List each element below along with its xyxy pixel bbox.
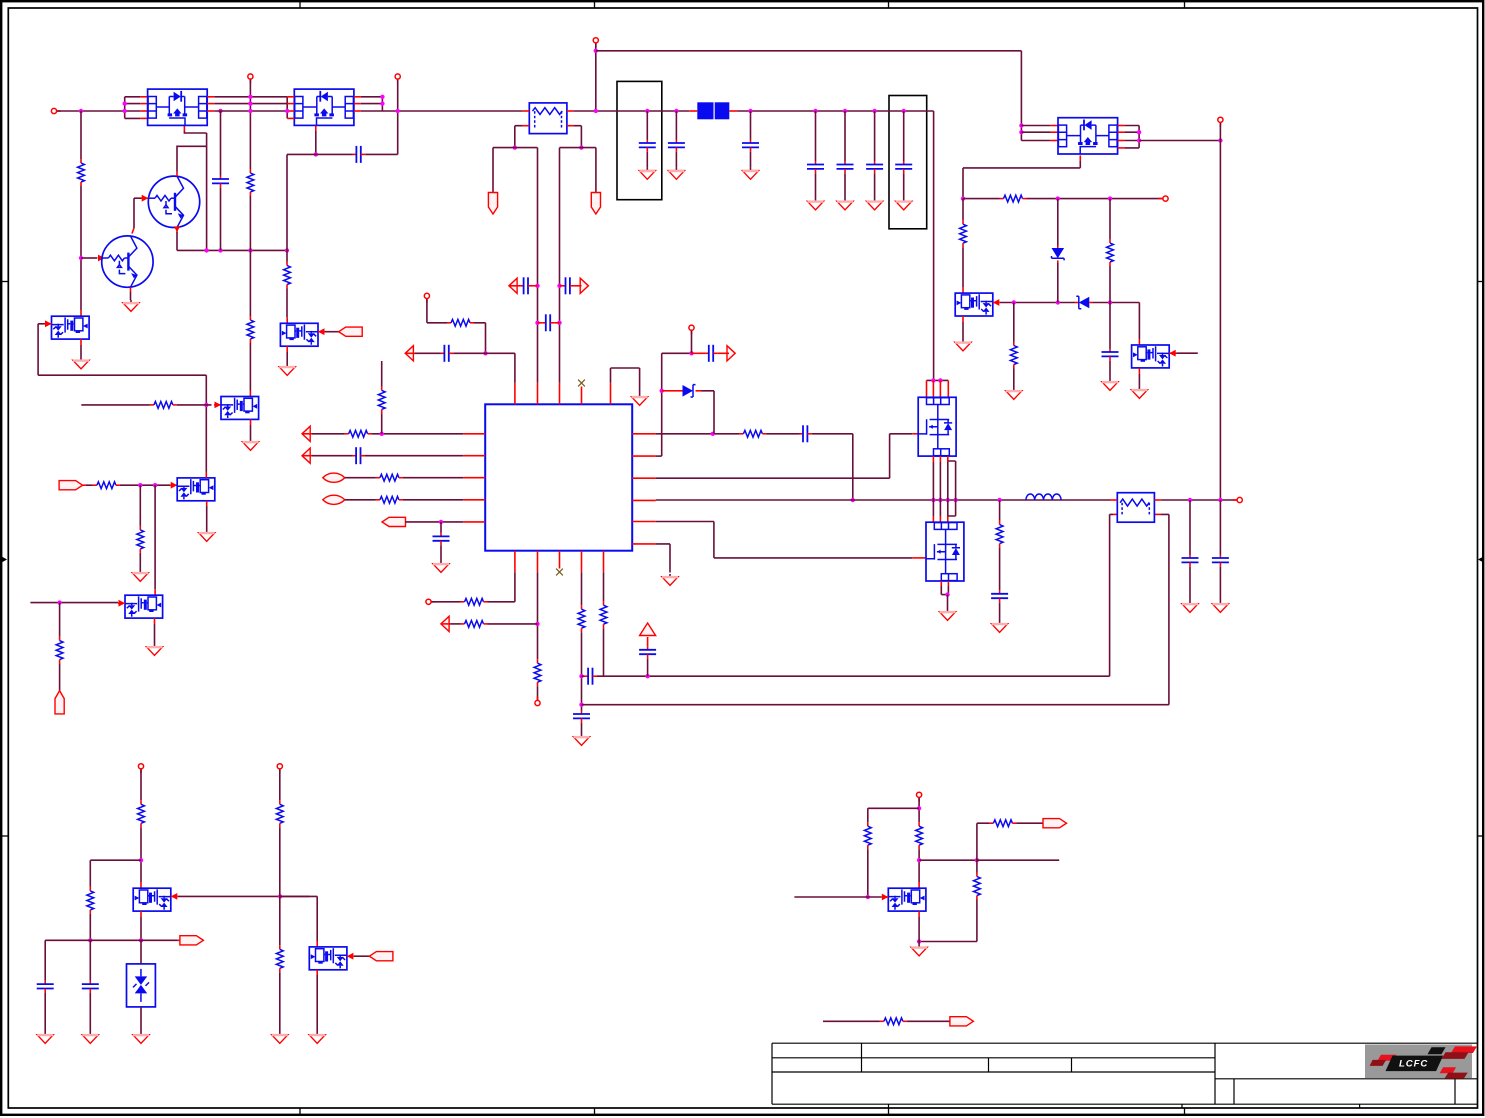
junction <box>278 894 282 898</box>
wire <box>176 232 178 250</box>
pin D1 anode <box>662 390 683 392</box>
wire <box>581 572 583 605</box>
capacitor C20 <box>585 668 597 685</box>
ground G32 <box>279 364 295 375</box>
wire <box>823 1020 880 1022</box>
pin Q1 right <box>207 110 214 112</box>
pin M1 source <box>939 456 941 462</box>
resistor R30 <box>989 820 1016 827</box>
junction <box>79 109 83 113</box>
pin U1 left <box>463 477 485 479</box>
junction <box>931 498 935 502</box>
wire <box>1176 352 1198 354</box>
pin <box>726 352 729 354</box>
junction <box>674 109 678 113</box>
resistor R19 <box>996 521 1003 548</box>
wire rail <box>214 110 287 112</box>
wire <box>372 433 464 435</box>
border tick right <box>1478 835 1484 837</box>
wire Q2 right bus <box>381 97 383 111</box>
ground G5 <box>807 199 823 210</box>
border arrow left <box>1 557 6 561</box>
wire <box>453 353 515 382</box>
resistor R5 <box>960 220 967 247</box>
ground G28 <box>199 530 215 541</box>
junction <box>123 101 127 105</box>
wire stub <box>977 859 1059 861</box>
pin Q3 right <box>1118 140 1125 142</box>
wire <box>977 823 990 860</box>
power terminal P15 <box>917 792 922 797</box>
wire <box>919 859 977 861</box>
wire top net <box>596 50 1022 52</box>
border tick right <box>1478 281 1484 283</box>
wire <box>907 1020 950 1022</box>
pin U1 left <box>463 521 485 523</box>
diode D1 <box>683 385 696 397</box>
resistor R31 <box>974 873 981 900</box>
transistor Q4 <box>148 176 199 227</box>
pin <box>718 352 726 354</box>
wire <box>279 827 281 896</box>
capacitor C19 <box>573 711 590 723</box>
wire <box>220 188 222 251</box>
junction <box>557 321 561 325</box>
pin Q2 left <box>287 103 294 105</box>
resistor R29 <box>916 822 923 849</box>
wire <box>432 601 461 603</box>
wire <box>656 544 670 573</box>
pin Q3 right <box>1118 147 1125 149</box>
junction <box>645 109 649 113</box>
pin Q1 left <box>140 117 147 119</box>
wire <box>962 199 964 221</box>
junction <box>945 592 949 596</box>
resistor R16 <box>461 621 488 628</box>
power terminal P8 <box>689 325 694 330</box>
wire <box>939 462 941 516</box>
junction <box>396 109 400 113</box>
dual FET B7 <box>309 947 347 970</box>
ground G23 <box>82 1032 98 1043</box>
wire <box>948 461 955 516</box>
pin B6 source <box>140 911 142 917</box>
junction <box>1019 130 1023 134</box>
capacitor C18 <box>705 345 717 362</box>
pin B10 drain <box>286 317 288 323</box>
pin U1 right <box>632 521 656 523</box>
pin Q1 right <box>207 96 214 98</box>
wire <box>312 455 353 457</box>
wire <box>345 499 376 501</box>
dual MOSFET Q2 <box>294 89 354 125</box>
resistor R15 <box>534 659 541 686</box>
wire M1 drain bus <box>927 379 949 381</box>
wire <box>80 345 82 358</box>
resistor R9 <box>345 430 372 437</box>
ground G6 <box>837 199 853 210</box>
junction <box>285 248 289 252</box>
border tick bottom <box>1184 1108 1186 1115</box>
pin U1 top NC <box>581 387 583 405</box>
pin Q4 base arrow <box>141 195 148 202</box>
wire <box>345 477 376 479</box>
connector E5 <box>369 952 393 961</box>
ground G9 <box>955 340 971 351</box>
ferrite bead FB1 block B <box>715 102 730 119</box>
pin <box>1057 246 1059 249</box>
wire <box>30 602 118 604</box>
wire to M1 drain <box>933 111 935 380</box>
wire <box>249 80 251 169</box>
wire feedback 1 <box>597 675 1110 677</box>
pin Q1 left <box>140 103 147 105</box>
junction <box>689 351 693 355</box>
junction <box>535 622 539 626</box>
junction <box>1056 300 1060 304</box>
resistor R3 <box>247 316 254 343</box>
wire <box>691 331 693 353</box>
pin T1 sec-right <box>1154 513 1160 515</box>
wire <box>287 153 353 155</box>
junction <box>579 703 583 707</box>
pin <box>560 285 563 287</box>
wire <box>903 173 905 198</box>
resistor R27 <box>56 637 63 664</box>
pin B2 source <box>250 419 252 425</box>
pin <box>405 352 415 354</box>
connector E7 <box>1043 819 1067 828</box>
wire <box>249 250 251 316</box>
pin Q5 collector <box>132 228 134 234</box>
pin Q5 emitter <box>130 287 132 292</box>
pin Q2 right <box>354 103 361 105</box>
wire <box>1110 514 1114 676</box>
dual FET B4 <box>955 293 993 316</box>
pin Q3 left <box>1051 140 1058 142</box>
wire <box>492 148 494 192</box>
wire <box>999 548 1001 591</box>
wire <box>286 352 288 364</box>
wire <box>675 152 677 168</box>
dual FET B3 <box>177 478 215 501</box>
wire <box>1016 822 1043 824</box>
pin B5 drain <box>1138 339 1140 345</box>
wire Q1 source down <box>184 131 206 250</box>
capacitor C2 <box>353 146 365 163</box>
wire <box>38 323 44 325</box>
junction <box>1218 498 1222 502</box>
wire Q3 right bus <box>1138 126 1140 148</box>
junction <box>946 498 950 502</box>
dual FET B1 <box>52 316 90 339</box>
ground G12 <box>1131 387 1147 398</box>
resistor R26 <box>137 526 144 553</box>
capacitor C17 <box>800 425 812 442</box>
border tick bottom <box>594 1108 596 1115</box>
pin <box>647 637 649 646</box>
pin M1 drain <box>939 380 941 397</box>
pin M1 drain <box>926 380 928 397</box>
wire <box>1057 199 1059 246</box>
wire rail to fuse <box>361 110 523 112</box>
border tick bottom <box>299 1108 301 1115</box>
transformer T1 <box>1117 493 1154 523</box>
capacitor C24 <box>1212 555 1229 567</box>
junction <box>79 256 83 260</box>
ground G15 <box>662 574 678 585</box>
wire <box>603 628 605 676</box>
pin B4 source <box>962 316 964 322</box>
ground G31 <box>911 945 927 956</box>
junction <box>1019 123 1023 127</box>
junction <box>579 674 583 678</box>
junction <box>204 403 208 407</box>
wire <box>537 572 539 659</box>
pin B3 drain <box>205 472 207 478</box>
wire phase rail <box>656 499 1110 501</box>
transistor Q5 <box>102 236 153 287</box>
wire <box>205 375 207 472</box>
junction <box>1012 300 1016 304</box>
wire <box>1138 374 1140 387</box>
wire U1 to M1 gate <box>656 434 912 478</box>
wire <box>178 895 310 897</box>
wire <box>120 484 170 486</box>
connector arrow A3 <box>580 278 588 293</box>
pin <box>555 322 560 324</box>
connector E4 <box>180 936 204 945</box>
ground G26 <box>73 358 89 369</box>
junction <box>594 109 598 113</box>
pin Q3 right <box>1118 131 1125 133</box>
ground G10 <box>1006 388 1022 399</box>
pin Q1 left <box>140 96 147 98</box>
junction <box>872 109 876 113</box>
resistor R13 <box>739 430 766 437</box>
wire <box>403 477 463 479</box>
pin <box>302 433 312 435</box>
ground G2 <box>639 168 655 179</box>
junction <box>557 284 561 288</box>
power terminal P5 <box>1218 117 1223 122</box>
current-sense box K2 <box>889 96 927 229</box>
power terminal P9 <box>426 599 431 604</box>
wire <box>537 686 539 700</box>
ground G11 <box>1102 379 1118 390</box>
zener pack Z2 <box>127 964 156 1007</box>
junction <box>917 858 921 862</box>
wire rail <box>737 110 933 112</box>
controller IC U1 <box>485 404 632 550</box>
wire Q3 right links <box>1125 126 1140 148</box>
wire <box>488 572 515 602</box>
wire <box>1160 514 1169 704</box>
junction <box>139 858 143 862</box>
power terminal P13 <box>138 764 143 769</box>
pin FB1 left <box>689 110 697 112</box>
wire <box>874 111 876 161</box>
wire Q2 right links <box>361 97 383 104</box>
wire <box>675 111 677 140</box>
wire Q1 left bus <box>124 97 126 119</box>
ground G20 <box>1212 601 1228 612</box>
resistor R10 <box>378 386 385 413</box>
border arrow right <box>1479 557 1484 561</box>
wire <box>250 425 252 439</box>
wire <box>140 827 142 882</box>
wire U1 to M2 gate <box>656 522 912 558</box>
wire Q2 source down <box>315 131 317 154</box>
pin Q1 source <box>183 126 185 131</box>
pin F1 left <box>523 110 530 112</box>
wire <box>1093 302 1140 304</box>
wire <box>365 455 463 457</box>
pin B7 gate arrow <box>347 953 354 960</box>
connector J3 <box>55 691 64 714</box>
pin U1 right <box>632 499 656 501</box>
wire <box>59 664 61 691</box>
capacitor C1 <box>212 176 229 188</box>
ground G18 <box>991 621 1007 632</box>
power MOSFET module M2 <box>926 522 964 581</box>
pin Q2 left <box>287 96 294 98</box>
resistor R17 <box>578 605 585 632</box>
pin B8 drain <box>154 589 156 595</box>
pin Q1 right <box>207 103 214 105</box>
wire <box>647 659 649 677</box>
wire <box>999 500 1001 521</box>
dual FET B6 <box>133 888 171 911</box>
connector E3 <box>382 517 406 526</box>
LCFC logo <box>1365 1045 1477 1079</box>
pin Q3 right <box>1118 125 1125 127</box>
wire <box>365 153 397 155</box>
capacitor C13 <box>562 277 574 294</box>
wire Q4 base <box>134 197 143 199</box>
junction <box>88 938 92 942</box>
wire <box>918 917 920 945</box>
power terminal P3 <box>395 74 400 79</box>
junction <box>1137 130 1141 134</box>
pin Q2 left <box>287 110 294 112</box>
pin Q4 emitter <box>176 228 178 233</box>
wire <box>1219 500 1221 555</box>
wire <box>286 154 288 250</box>
wire Q5 base link <box>81 257 97 259</box>
border tick top <box>888 1 890 8</box>
pin Q4 collector <box>176 172 178 177</box>
connector J1 <box>488 193 497 215</box>
ground G24 <box>272 1032 288 1043</box>
wire <box>1189 500 1191 555</box>
wire <box>581 632 583 710</box>
connector arrow A2 <box>509 278 517 293</box>
resistor R18 <box>600 601 607 628</box>
junction <box>138 483 142 487</box>
wire <box>1219 567 1221 601</box>
resistor R14 <box>461 598 488 605</box>
wire <box>1000 302 1075 304</box>
pin B10 source <box>286 346 288 352</box>
junction <box>748 109 752 113</box>
junction <box>380 95 384 99</box>
resistor R2 <box>247 169 254 196</box>
wire <box>1189 567 1191 601</box>
wire <box>206 506 208 530</box>
wire <box>1109 266 1111 349</box>
junction <box>513 145 517 149</box>
wire Q4-Q5 link <box>133 198 135 228</box>
pin M1 drain <box>932 380 934 397</box>
wire <box>918 798 920 822</box>
wire <box>812 434 853 500</box>
pin F1 lower-right <box>567 125 574 127</box>
wire <box>80 186 82 310</box>
current-sense box K1 <box>617 81 662 199</box>
wire Q1-Q2 links <box>214 97 287 104</box>
pin B4 drain <box>962 287 964 293</box>
junction <box>248 101 252 105</box>
junction <box>917 806 921 810</box>
capacitor C14 <box>542 314 554 331</box>
wire <box>662 352 692 354</box>
junction <box>711 432 715 436</box>
wire <box>903 111 905 161</box>
wire Q3 source net <box>963 161 1080 199</box>
wire <box>316 975 318 1032</box>
wire <box>474 323 486 354</box>
wire <box>45 939 178 941</box>
capacitor C26 <box>82 981 99 993</box>
pin B10 gate arrow <box>318 328 325 335</box>
junction <box>594 49 598 53</box>
pin B1 source <box>80 339 82 345</box>
capacitor C6 <box>807 161 824 173</box>
ground G7 <box>866 199 882 210</box>
wire <box>177 404 212 406</box>
wire <box>325 331 339 333</box>
resistor R12 <box>376 496 403 503</box>
wire <box>488 623 538 625</box>
junction <box>1188 498 1192 502</box>
wire <box>440 522 442 533</box>
wire <box>874 173 876 198</box>
junction <box>975 858 979 862</box>
pin M2 source <box>947 581 949 586</box>
dual FET B2 <box>221 397 259 420</box>
junction <box>248 109 252 113</box>
junction <box>123 109 127 113</box>
pin <box>302 455 312 457</box>
wire <box>81 404 150 406</box>
pin B8 gate arrow <box>118 600 125 607</box>
pin U1 left <box>463 455 485 457</box>
junction <box>380 432 384 436</box>
wire <box>582 675 585 677</box>
power terminal P4 <box>593 38 598 43</box>
wire <box>844 173 846 198</box>
capacitor C22 <box>991 590 1008 602</box>
wire <box>440 545 442 561</box>
wire <box>86 484 93 486</box>
pin <box>1075 302 1078 304</box>
pin U1 top <box>537 383 539 405</box>
wire <box>354 955 370 957</box>
pin B9 drain <box>918 882 920 888</box>
pin Q5 base arrow <box>98 255 105 262</box>
pin B9 source <box>918 911 920 917</box>
